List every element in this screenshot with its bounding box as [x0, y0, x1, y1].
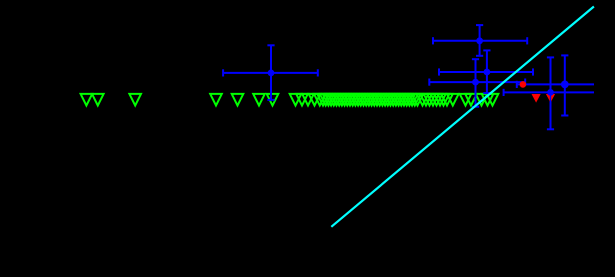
green upper-limit triangles, dense cluster: [296, 94, 458, 106]
red upper-limit arrow 1: [532, 94, 541, 103]
blue marker point E: [547, 89, 554, 96]
blue errorbar lines point F: [517, 55, 594, 115]
blue marker point B: [476, 37, 483, 44]
blue errorbar lines point B: [433, 25, 527, 56]
blue line over arrow 2: [550, 94, 552, 103]
red upper-limit arrow 2: [546, 94, 555, 103]
blue errorbar lines point C: [439, 50, 533, 93]
blue errorbar lines point D: [429, 59, 525, 106]
blue errorbar lines point E: [504, 57, 594, 129]
cyan diagonal line: [331, 7, 594, 227]
blue marker point D: [472, 79, 479, 86]
red point: [520, 81, 527, 88]
green upper-limit triangles, sparse group: [81, 94, 302, 106]
blue marker point C: [484, 69, 491, 76]
blue marker point F: [561, 81, 569, 89]
blue marker point A: [268, 70, 275, 77]
blue errorbar lines point A: [223, 45, 318, 100]
green upper-limit triangles, right group: [460, 94, 499, 106]
